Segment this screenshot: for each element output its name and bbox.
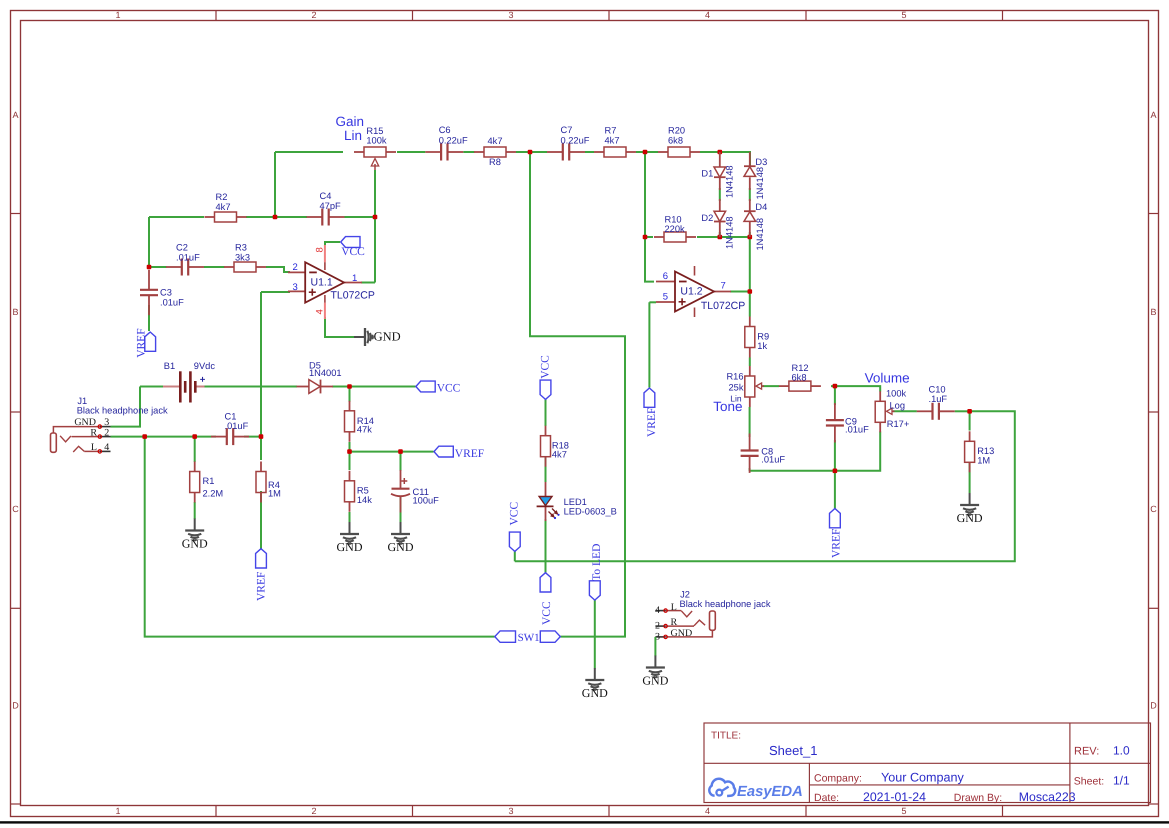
junction xyxy=(718,235,723,240)
svg-text:A: A xyxy=(12,110,18,120)
LED LED1 xyxy=(537,482,617,521)
junction xyxy=(528,150,533,155)
ground at R1 xyxy=(194,519,196,531)
diode D5 xyxy=(297,361,342,394)
capacitor C4 xyxy=(307,191,345,226)
junction xyxy=(347,449,352,454)
svg-text:VCC: VCC xyxy=(508,502,520,526)
svg-text:C2: C2 xyxy=(176,243,188,253)
svg-text:Your Company: Your Company xyxy=(881,770,965,784)
svg-text:SW1: SW1 xyxy=(518,632,540,644)
EasyEDA logo xyxy=(709,779,803,800)
svg-text:14k: 14k xyxy=(357,495,372,505)
junction xyxy=(643,235,648,240)
potentiometer R17 xyxy=(875,389,909,433)
svg-text:R9: R9 xyxy=(757,332,769,342)
wire xyxy=(111,436,217,438)
op-amp U1.1 xyxy=(288,245,375,319)
wire xyxy=(244,436,261,438)
wire xyxy=(700,152,750,166)
svg-text:Log: Log xyxy=(890,400,906,410)
svg-text:1N4148: 1N4148 xyxy=(725,216,735,249)
svg-text:VREF: VREF xyxy=(646,408,658,437)
svg-text:R8: R8 xyxy=(489,157,501,167)
junction xyxy=(373,215,378,220)
wire xyxy=(111,387,141,427)
svg-text:VREF: VREF xyxy=(831,529,843,558)
svg-text:TL072CP: TL072CP xyxy=(331,290,375,302)
wire xyxy=(325,317,354,337)
svg-text:0.22uF: 0.22uF xyxy=(561,136,590,146)
diode D2 xyxy=(701,199,734,249)
svg-text:C4: C4 xyxy=(320,191,332,201)
svg-text:2021-01-24: 2021-01-24 xyxy=(863,790,926,804)
junction xyxy=(748,289,753,294)
wire xyxy=(349,452,351,470)
svg-text:6k8: 6k8 xyxy=(792,373,807,383)
wire xyxy=(545,457,547,482)
svg-text:VCC: VCC xyxy=(437,383,461,395)
svg-text:.01uF: .01uF xyxy=(160,297,184,307)
svg-text:TL072CP: TL072CP xyxy=(701,300,745,312)
resistor R14 xyxy=(345,401,374,442)
wire xyxy=(349,442,351,452)
resistor R5 xyxy=(345,471,373,512)
wire xyxy=(719,188,721,201)
diode D1 xyxy=(701,152,734,198)
wire xyxy=(969,411,971,430)
ground at To LED xyxy=(594,668,596,680)
capacitor C3 xyxy=(140,270,184,315)
svg-text:.01uF: .01uF xyxy=(845,424,869,434)
svg-text:4: 4 xyxy=(705,10,710,20)
resistor R3 xyxy=(224,243,266,273)
wire xyxy=(148,305,150,331)
potentiometer R16 xyxy=(726,366,764,407)
wire xyxy=(397,151,425,153)
wire xyxy=(831,386,880,391)
wire xyxy=(645,151,658,153)
svg-text:A: A xyxy=(1150,110,1156,120)
net flag VREF at C9 xyxy=(830,509,843,559)
ground at R13 xyxy=(969,493,971,505)
wire xyxy=(350,451,434,453)
wire xyxy=(749,358,751,367)
wire xyxy=(260,437,262,460)
svg-text:5: 5 xyxy=(901,10,906,20)
junction xyxy=(147,265,152,270)
wire xyxy=(545,399,547,426)
svg-text:VREF: VREF xyxy=(256,572,268,601)
svg-text:9Vdc: 9Vdc xyxy=(194,361,216,371)
ground at J2 xyxy=(654,656,656,668)
net flag VREF at R4 xyxy=(256,549,268,601)
svg-text:R17+: R17+ xyxy=(887,419,909,429)
svg-text:VCC: VCC xyxy=(341,246,365,258)
wire xyxy=(145,437,495,637)
wire xyxy=(332,386,416,388)
resistor R7 xyxy=(594,126,636,158)
capacitor C11 polarized xyxy=(391,470,439,513)
svg-text:C7: C7 xyxy=(561,125,573,135)
wire xyxy=(260,292,262,437)
capacitor C1 xyxy=(211,412,249,446)
resistor R20 xyxy=(658,126,700,158)
wire xyxy=(594,600,596,669)
svg-text:R: R xyxy=(671,617,678,628)
wire xyxy=(204,266,225,268)
wire xyxy=(148,217,150,267)
svg-text:R16: R16 xyxy=(726,372,743,382)
junction xyxy=(833,384,838,389)
battery B1 xyxy=(163,361,215,403)
svg-text:GND: GND xyxy=(642,674,668,688)
svg-text:GND: GND xyxy=(957,511,983,525)
wire xyxy=(140,386,166,388)
svg-text:.1uF: .1uF xyxy=(929,394,948,404)
svg-text:4k7: 4k7 xyxy=(216,202,231,212)
wire xyxy=(749,232,751,237)
svg-text:L: L xyxy=(671,602,677,613)
wire xyxy=(194,502,196,519)
wire xyxy=(514,551,516,561)
net flag VCC above R18 xyxy=(540,355,552,400)
svg-text:6: 6 xyxy=(663,271,668,282)
svg-text:VCC: VCC xyxy=(541,601,553,625)
svg-text:L: L xyxy=(91,442,97,453)
net flag VCC left of row xyxy=(508,502,520,552)
svg-text:8: 8 xyxy=(315,247,326,252)
capacitor C7 xyxy=(547,125,590,161)
svg-text:TITLE:: TITLE: xyxy=(711,731,741,742)
svg-text:1N4148: 1N4148 xyxy=(725,165,735,198)
wire xyxy=(730,291,750,293)
potentiometer R15 xyxy=(354,126,396,170)
svg-text:3: 3 xyxy=(293,282,298,293)
net port SW1 xyxy=(495,631,561,644)
svg-text:1: 1 xyxy=(115,10,120,20)
junction xyxy=(967,409,972,414)
svg-text:4k7: 4k7 xyxy=(488,136,503,146)
svg-text:D1: D1 xyxy=(701,168,713,178)
capacitor C6 xyxy=(425,125,468,161)
svg-text:VREF: VREF xyxy=(135,328,147,357)
net flag VCC at U1.1 pin8 xyxy=(341,237,365,259)
wire xyxy=(749,237,751,317)
junction xyxy=(142,434,147,439)
svg-text:2: 2 xyxy=(311,806,316,816)
svg-text:R13: R13 xyxy=(977,446,994,456)
wire xyxy=(645,152,654,282)
svg-text:2: 2 xyxy=(104,427,109,438)
svg-text:C: C xyxy=(12,504,19,514)
svg-text:220k: 220k xyxy=(665,224,686,234)
svg-text:C6: C6 xyxy=(439,125,451,135)
op-amp U1.2 xyxy=(656,266,745,317)
junction xyxy=(259,434,264,439)
wire xyxy=(349,387,351,403)
svg-text:.01uF: .01uF xyxy=(761,455,785,465)
svg-text:1N4148: 1N4148 xyxy=(755,167,765,200)
wire xyxy=(266,267,290,272)
svg-text:C10: C10 xyxy=(929,385,946,395)
svg-text:2: 2 xyxy=(293,262,298,273)
resistor R4 xyxy=(256,462,281,503)
svg-text:4k7: 4k7 xyxy=(605,136,620,146)
svg-text:GND: GND xyxy=(182,537,208,551)
wire xyxy=(530,151,547,153)
wire xyxy=(636,151,645,153)
junction xyxy=(347,384,352,389)
wire xyxy=(749,468,751,471)
svg-text:R7: R7 xyxy=(605,126,617,136)
wire xyxy=(349,512,351,522)
svg-text:1.0: 1.0 xyxy=(1113,744,1130,758)
bottom black bar xyxy=(0,821,1169,823)
capacitor C8 xyxy=(741,434,786,473)
svg-text:Lin: Lin xyxy=(344,128,362,143)
resistor R8 xyxy=(474,136,516,167)
svg-text:Mosca223: Mosca223 xyxy=(1019,790,1076,804)
svg-text:4: 4 xyxy=(104,442,109,453)
svg-text:VREF: VREF xyxy=(455,448,484,460)
svg-text:4k7: 4k7 xyxy=(552,450,567,460)
svg-text:To LED: To LED xyxy=(591,544,603,581)
wire xyxy=(750,432,881,471)
svg-text:D2: D2 xyxy=(701,213,713,223)
svg-text:Drawn By:: Drawn By: xyxy=(954,792,1002,804)
resistor R9 xyxy=(745,317,769,358)
wire xyxy=(649,301,656,303)
resistor R12 xyxy=(779,363,821,391)
wire xyxy=(763,385,780,387)
wire xyxy=(645,236,653,238)
wire xyxy=(361,282,375,284)
junction xyxy=(273,215,278,220)
svg-text:R: R xyxy=(90,427,97,438)
svg-text:R2: R2 xyxy=(216,192,228,202)
svg-text:0.22uF: 0.22uF xyxy=(439,136,468,146)
svg-text:J1: J1 xyxy=(77,396,87,406)
wire xyxy=(515,411,1015,561)
wire xyxy=(194,437,196,462)
resistor R18 xyxy=(541,426,569,467)
wire xyxy=(345,216,376,218)
net flag VREF at C3 xyxy=(135,328,155,357)
wire xyxy=(400,497,402,522)
svg-text:D4: D4 xyxy=(755,202,767,212)
ground at C11 xyxy=(400,522,402,534)
resistor R1 xyxy=(190,462,223,503)
svg-text:Date:: Date: xyxy=(814,792,839,804)
svg-text:1/1: 1/1 xyxy=(1113,774,1130,788)
svg-text:Volume: Volume xyxy=(865,370,910,385)
svg-text:1k: 1k xyxy=(757,341,767,351)
svg-text:1N4148: 1N4148 xyxy=(755,218,765,251)
wire xyxy=(654,637,656,656)
wire xyxy=(400,452,402,471)
wire xyxy=(261,291,290,293)
net flag VCC below LED xyxy=(540,573,553,625)
ground flag at U1.1 pin4 xyxy=(354,328,401,346)
svg-text:2.2M: 2.2M xyxy=(203,489,224,499)
wire xyxy=(463,151,474,153)
capacitor C10 xyxy=(917,385,955,420)
svg-text:U1.1: U1.1 xyxy=(311,277,333,289)
diode D3 xyxy=(744,152,767,200)
svg-text:.01uF: .01uF xyxy=(176,252,200,262)
svg-text:47k: 47k xyxy=(357,425,372,435)
headphone jack J2 xyxy=(655,590,771,643)
svg-text:47pF: 47pF xyxy=(320,201,342,211)
svg-text:Gain: Gain xyxy=(335,114,364,129)
capacitor C9 xyxy=(826,403,869,442)
wire xyxy=(275,216,307,218)
svg-text:1: 1 xyxy=(352,273,357,284)
svg-text:LED-0603_B: LED-0603_B xyxy=(564,506,617,516)
svg-text:R5: R5 xyxy=(357,485,369,495)
svg-text:J2: J2 xyxy=(680,590,690,600)
svg-text:Company:: Company: xyxy=(814,772,862,784)
svg-text:100uF: 100uF xyxy=(413,495,440,505)
resistor R2 xyxy=(205,192,247,222)
svg-text:1N4001: 1N4001 xyxy=(309,368,342,378)
svg-text:C: C xyxy=(1150,504,1157,514)
wire xyxy=(149,216,204,218)
svg-text:4: 4 xyxy=(315,309,326,314)
wire xyxy=(545,519,547,573)
svg-text:Black headphone jack: Black headphone jack xyxy=(77,406,168,416)
svg-text:3k3: 3k3 xyxy=(235,252,250,262)
svg-text:GND: GND xyxy=(337,540,363,554)
svg-text:D3: D3 xyxy=(755,157,767,167)
junction xyxy=(833,469,838,474)
junction xyxy=(398,449,403,454)
junction xyxy=(643,150,648,155)
wire xyxy=(969,463,971,494)
svg-text:7: 7 xyxy=(721,281,726,292)
svg-text:B: B xyxy=(1150,307,1156,317)
svg-text:100k: 100k xyxy=(366,135,387,145)
svg-text:GND: GND xyxy=(671,628,693,639)
svg-text:100k: 100k xyxy=(886,389,907,399)
wire xyxy=(893,410,917,412)
diode D4 xyxy=(744,199,767,251)
svg-text:GND: GND xyxy=(388,540,414,554)
wire xyxy=(203,386,297,388)
wire xyxy=(955,410,970,412)
wire xyxy=(648,302,650,387)
wire xyxy=(516,151,530,153)
net flag VREF at R14 xyxy=(434,446,453,457)
svg-text:6k8: 6k8 xyxy=(668,136,683,146)
svg-text:1M: 1M xyxy=(268,489,281,499)
svg-text:5: 5 xyxy=(663,292,668,303)
svg-text:2: 2 xyxy=(311,10,316,20)
wire xyxy=(274,152,276,217)
wire xyxy=(749,188,751,201)
wire xyxy=(149,266,167,268)
junction xyxy=(718,150,723,155)
svg-text:R10: R10 xyxy=(665,215,682,225)
svg-text:GND: GND xyxy=(374,330,401,344)
resistor R10 xyxy=(654,215,696,243)
svg-text:Sheet_1: Sheet_1 xyxy=(769,743,817,758)
svg-text:REV:: REV: xyxy=(1074,746,1099,758)
svg-text:VCC: VCC xyxy=(540,355,552,379)
wire xyxy=(719,232,721,237)
svg-text:3: 3 xyxy=(508,10,513,20)
svg-text:4: 4 xyxy=(655,605,660,616)
svg-text:+: + xyxy=(200,374,206,385)
svg-text:25k: 25k xyxy=(729,383,744,393)
wire xyxy=(530,152,625,637)
resistor R13 xyxy=(965,431,995,472)
svg-text:C3: C3 xyxy=(160,288,172,298)
wire xyxy=(834,471,836,509)
wire xyxy=(834,440,836,471)
svg-text:U1.2: U1.2 xyxy=(680,286,702,298)
wire xyxy=(749,407,751,437)
svg-text:R20: R20 xyxy=(668,126,685,136)
capacitor C2 xyxy=(166,243,204,276)
wire xyxy=(246,216,275,218)
net flag VREF at U1.2 pin5 xyxy=(644,388,658,437)
wire xyxy=(585,151,594,153)
svg-text:R3: R3 xyxy=(235,243,247,253)
junction xyxy=(192,434,197,439)
svg-text:D: D xyxy=(12,701,19,711)
svg-text:2: 2 xyxy=(655,620,660,631)
junction xyxy=(748,235,753,240)
svg-text:4: 4 xyxy=(705,806,710,816)
svg-text:B1: B1 xyxy=(164,361,175,371)
svg-text:Sheet:: Sheet: xyxy=(1074,776,1104,788)
svg-text:D: D xyxy=(1150,701,1157,711)
svg-text:EasyEDA: EasyEDA xyxy=(737,784,803,800)
svg-text:.01uF: .01uF xyxy=(225,421,249,431)
wire xyxy=(374,170,376,283)
ground at R5 xyxy=(349,522,351,534)
svg-text:R1: R1 xyxy=(203,476,215,486)
svg-text:Tone: Tone xyxy=(713,399,742,414)
svg-text:1: 1 xyxy=(115,806,120,816)
svg-text:1M: 1M xyxy=(977,456,990,466)
wire xyxy=(325,242,340,245)
svg-text:GND: GND xyxy=(582,686,608,700)
wire xyxy=(834,386,836,405)
wire xyxy=(275,151,343,153)
net flag VCC at D5 xyxy=(416,381,435,392)
headphone jack J1 xyxy=(51,396,169,453)
net flag To LED xyxy=(589,544,602,601)
wire xyxy=(697,236,750,238)
svg-text:Black headphone jack: Black headphone jack xyxy=(680,599,771,609)
svg-text:3: 3 xyxy=(508,806,513,816)
svg-text:5: 5 xyxy=(901,806,906,816)
svg-text:B: B xyxy=(12,307,18,317)
title block xyxy=(704,723,1151,804)
wire xyxy=(260,491,262,549)
